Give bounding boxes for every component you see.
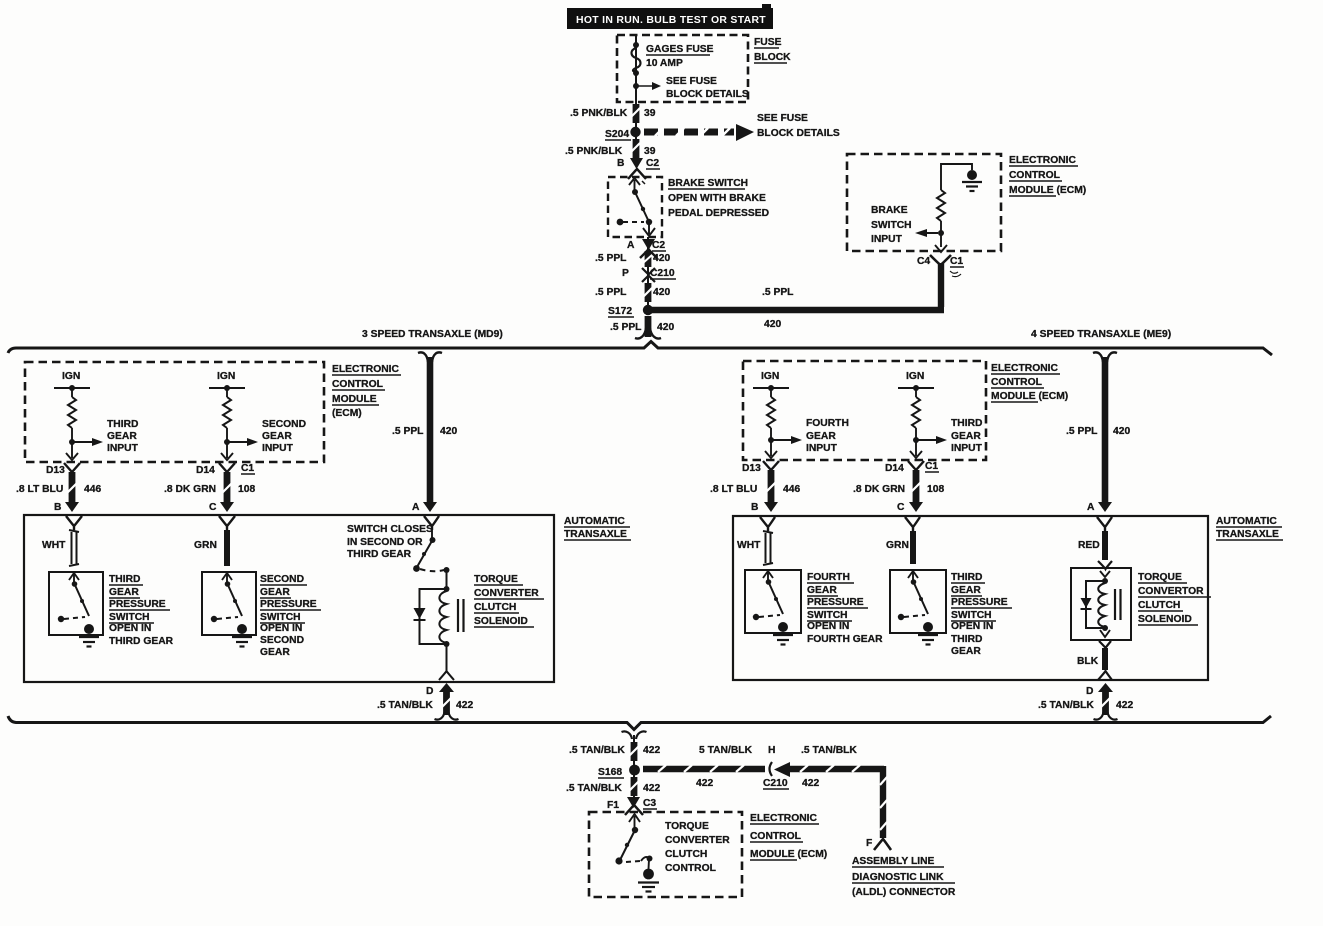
svg-text:420: 420 (653, 253, 670, 264)
svg-text:GEAR: GEAR (806, 431, 836, 442)
svg-text:.5 PPL: .5 PPL (1066, 426, 1097, 437)
svg-text:108: 108 (927, 484, 944, 495)
svg-text:C1: C1 (241, 463, 254, 474)
svg-text:GRN: GRN (886, 540, 909, 551)
svg-text:D13: D13 (742, 463, 761, 474)
third gear pressure switch (3spd) (49, 572, 174, 647)
svg-text:FOURTH: FOURTH (806, 418, 849, 429)
svg-text:CONTROL: CONTROL (1009, 170, 1060, 181)
svg-text:SEE FUSE: SEE FUSE (757, 113, 808, 124)
svg-text:C1: C1 (925, 461, 938, 472)
svg-text:420: 420 (764, 319, 781, 330)
svg-text:F1: F1 (607, 800, 619, 811)
svg-text:420: 420 (440, 426, 457, 437)
svg-text:THIRD: THIRD (107, 419, 138, 430)
svg-text:DIAGNOSTIC LINK: DIAGNOSTIC LINK (852, 872, 944, 883)
power banner HOT IN RUN (567, 4, 773, 29)
svg-text:FOURTH: FOURTH (807, 572, 850, 583)
svg-text:IGN: IGN (761, 371, 779, 382)
svg-text:446: 446 (84, 484, 101, 495)
wire GRN (4spd) (886, 531, 913, 564)
svg-text:PRESSURE: PRESSURE (951, 597, 1008, 608)
svg-text:CONTROL: CONTROL (750, 831, 801, 842)
pin A connector (4spd box) (1097, 517, 1112, 531)
svg-text:TORQUE: TORQUE (1138, 572, 1182, 583)
svg-text:IGN: IGN (906, 371, 924, 382)
svg-text:THIRD: THIRD (951, 418, 982, 429)
svg-text:C3: C3 (643, 798, 656, 809)
svg-text:B: B (617, 158, 624, 169)
automatic transaxle box (3spd) (24, 515, 631, 682)
svg-text:.5 PNK/BLK: .5 PNK/BLK (565, 146, 623, 157)
svg-text:.5 TAN/BLK: .5 TAN/BLK (569, 745, 625, 756)
splice S172 (608, 305, 653, 317)
svg-text:PRESSURE: PRESSURE (109, 599, 166, 610)
splice S204 (605, 127, 641, 140)
fuse GAGES FUSE 10A (632, 36, 749, 102)
svg-text:PRESSURE: PRESSURE (807, 597, 864, 608)
wire GRN (3spd) (194, 530, 227, 566)
connector D13 wire 446 LT BLU (3spd) (16, 463, 101, 513)
svg-text:.5 PPL: .5 PPL (595, 287, 626, 298)
svg-text:TRANSAXLE: TRANSAXLE (1216, 529, 1279, 540)
svg-text:GEAR: GEAR (260, 587, 290, 598)
svg-text:GEAR: GEAR (260, 647, 290, 658)
svg-text:3 SPEED TRANSAXLE (MD9): 3 SPEED TRANSAXLE (MD9) (362, 329, 503, 340)
svg-text:CONVERTOR: CONVERTOR (1138, 586, 1204, 597)
wire 39 PNK/BLK lower (565, 134, 656, 160)
wire 422 TAN/BLK below brace (569, 731, 660, 765)
svg-text:420: 420 (1113, 426, 1130, 437)
svg-text:GAGES FUSE: GAGES FUSE (646, 44, 714, 55)
splice S168 (598, 765, 640, 778)
pin D wire 422 (3spd) (377, 683, 473, 720)
connector C2 pin A (627, 239, 666, 258)
IGN driver second gear (3spd) (209, 371, 306, 460)
brake switch contacts (617, 178, 655, 236)
svg-text:FUSE: FUSE (754, 37, 782, 48)
connector D13 wire 446 LT BLU (4spd) (710, 461, 800, 513)
svg-text:IN SECOND OR: IN SECOND OR (347, 537, 423, 548)
connector C4 / C1 (917, 255, 964, 277)
svg-text:SECOND: SECOND (260, 635, 304, 646)
wire 420 PPL seg1 (595, 237, 670, 310)
svg-text:BRAKE: BRAKE (871, 205, 908, 216)
brake switch input arrow (871, 205, 947, 252)
svg-text:BLK: BLK (1077, 656, 1099, 667)
svg-text:.5 PPL: .5 PPL (610, 322, 641, 333)
svg-text:.5 TAN/BLK: .5 TAN/BLK (801, 745, 857, 756)
svg-text:MODULE (ECM): MODULE (ECM) (991, 391, 1068, 402)
svg-text:.5 PPL: .5 PPL (392, 426, 423, 437)
svg-text:.5 TAN/BLK: .5 TAN/BLK (377, 700, 433, 711)
svg-text:GEAR: GEAR (109, 587, 139, 598)
brake switch box (608, 177, 769, 237)
svg-text:422: 422 (643, 745, 660, 756)
svg-text:5 TAN/BLK: 5 TAN/BLK (699, 745, 753, 756)
svg-text:(ECM): (ECM) (332, 408, 362, 419)
svg-text:.8 DK GRN: .8 DK GRN (164, 484, 216, 495)
wire 420 PPL ECM drop (938, 263, 944, 307)
svg-text:.5 TAN/BLK: .5 TAN/BLK (566, 783, 622, 794)
svg-text:THIRD: THIRD (109, 574, 140, 585)
svg-text:SWITCH: SWITCH (951, 610, 992, 621)
TCC switch (3spd) (347, 524, 450, 573)
svg-text:C210: C210 (763, 778, 788, 789)
brace separator bottom (8, 716, 1271, 730)
svg-text:.5 PPL: .5 PPL (762, 287, 793, 298)
svg-text:HOT IN RUN. BULB TEST OR START: HOT IN RUN. BULB TEST OR START (576, 15, 766, 26)
connector D14 C1 wire 108 DK GRN (3spd) (164, 463, 255, 513)
wire 420 PPL trunk (3spd) (392, 352, 457, 513)
svg-text:D: D (426, 686, 433, 697)
fuse block box (617, 35, 791, 102)
svg-text:THIRD GEAR: THIRD GEAR (347, 549, 412, 560)
svg-text:CLUTCH: CLUTCH (665, 849, 707, 860)
svg-text:C1: C1 (950, 256, 963, 267)
pin C connector (4spd box) (905, 517, 920, 531)
svg-text:WHT: WHT (737, 540, 761, 551)
wire 420 PPL trunk (4spd) (1066, 352, 1130, 513)
svg-text:.5 PNK/BLK: .5 PNK/BLK (570, 108, 628, 119)
svg-text:INPUT: INPUT (871, 234, 903, 245)
svg-text:CONTROL: CONTROL (332, 379, 383, 390)
svg-text:SECOND: SECOND (260, 574, 304, 585)
svg-text:.5 PPL: .5 PPL (595, 253, 626, 264)
svg-text:D14: D14 (196, 465, 215, 476)
pin B connector (3spd box) (66, 516, 82, 530)
svg-text:ELECTRONIC: ELECTRONIC (750, 813, 817, 824)
automatic transaxle box (4spd) (733, 516, 1283, 680)
svg-text:WHT: WHT (42, 540, 66, 551)
svg-text:INPUT: INPUT (262, 443, 294, 454)
svg-text:S168: S168 (598, 767, 622, 778)
svg-text:THIRD GEAR: THIRD GEAR (109, 636, 174, 647)
wire BLK (4spd) (1077, 641, 1112, 680)
svg-text:D: D (1086, 686, 1093, 697)
svg-text:SECOND: SECOND (262, 419, 306, 430)
svg-text:FOURTH GEAR: FOURTH GEAR (807, 634, 883, 645)
svg-text:422: 422 (802, 778, 819, 789)
ECM box (brake switch input) (847, 154, 1086, 251)
svg-text:CONTROL: CONTROL (991, 377, 1042, 388)
svg-text:GEAR: GEAR (807, 585, 837, 596)
svg-text:SWITCH CLOSES: SWITCH CLOSES (347, 524, 433, 535)
svg-text:GEAR: GEAR (951, 431, 981, 442)
svg-text:CONVERTER: CONVERTER (474, 588, 539, 599)
svg-text:TORQUE: TORQUE (665, 821, 709, 832)
svg-text:ELECTRONIC: ELECTRONIC (332, 364, 399, 375)
third gear pressure switch (4spd) (890, 570, 1012, 657)
svg-text:SOLENOID: SOLENOID (1138, 614, 1192, 625)
svg-text:39: 39 (644, 108, 656, 119)
svg-text:422: 422 (456, 700, 473, 711)
svg-text:PRESSURE: PRESSURE (260, 599, 317, 610)
svg-text:.8 LT BLU: .8 LT BLU (16, 484, 63, 495)
connector C210 pin P (622, 268, 676, 282)
ECM pull-up resistor (937, 190, 945, 247)
svg-text:TRANSAXLE: TRANSAXLE (564, 529, 627, 540)
TCC control contacts (615, 814, 659, 892)
svg-text:OPEN IN: OPEN IN (807, 621, 849, 632)
wire 422 TAN/BLK to TCC control (566, 775, 660, 797)
svg-text:INPUT: INPUT (107, 443, 139, 454)
brace separator top (8, 329, 1272, 355)
IGN driver fourth gear (4spd) (753, 371, 849, 458)
svg-text:420: 420 (657, 322, 674, 333)
svg-text:H: H (768, 745, 775, 756)
wire WHT (4spd) (737, 531, 773, 565)
svg-text:108: 108 (238, 484, 255, 495)
TCC control box (589, 812, 742, 897)
wire RED (4spd) (1078, 531, 1112, 569)
TCC solenoid (3spd) (414, 570, 545, 680)
svg-text:C4: C4 (917, 256, 930, 267)
wire 420 PPL seg2 (595, 283, 670, 302)
svg-text:ELECTRONIC: ELECTRONIC (1009, 155, 1076, 166)
svg-text:INPUT: INPUT (806, 443, 838, 454)
svg-text:420: 420 (653, 287, 670, 298)
svg-text:OPEN IN: OPEN IN (951, 621, 993, 632)
svg-text:A: A (1087, 502, 1095, 513)
svg-text:.5 TAN/BLK: .5 TAN/BLK (1038, 700, 1094, 711)
ECM label (TCC control) (750, 813, 827, 860)
wire 39 PNK/BLK upper (570, 100, 656, 130)
svg-text:INPUT: INPUT (951, 443, 983, 454)
svg-text:SEE FUSE: SEE FUSE (666, 76, 717, 87)
svg-text:OPEN IN: OPEN IN (260, 623, 302, 634)
svg-text:ELECTRONIC: ELECTRONIC (991, 363, 1058, 374)
svg-text:S172: S172 (608, 306, 632, 317)
svg-text:MODULE: MODULE (332, 394, 377, 405)
pin D wire 422 (4spd) (1038, 683, 1133, 720)
svg-text:SWITCH: SWITCH (109, 612, 150, 623)
wire 422 TAN/BLK to ALDL (643, 745, 884, 789)
ECM internal ground (941, 164, 982, 191)
svg-text:SOLENOID: SOLENOID (474, 616, 528, 627)
second gear pressure switch (3spd) (202, 572, 321, 658)
wire 420 PPL down to brace (610, 316, 674, 339)
wire 420 PPL horizontal to ECM (652, 287, 944, 330)
svg-text:A: A (412, 502, 420, 513)
connector C3 pin F1 (607, 797, 657, 815)
svg-text:P: P (622, 268, 629, 279)
svg-text:A: A (627, 240, 635, 251)
svg-text:SWITCH: SWITCH (807, 610, 848, 621)
pin B connector (4spd box) (760, 517, 775, 531)
wire WHT (3spd) (42, 530, 79, 566)
svg-text:RED: RED (1078, 540, 1100, 551)
svg-text:ASSEMBLY LINE: ASSEMBLY LINE (852, 856, 935, 867)
svg-text:PEDAL DEPRESSED: PEDAL DEPRESSED (668, 208, 769, 219)
IGN driver third gear (4spd) (898, 371, 983, 458)
svg-text:F: F (866, 838, 872, 849)
svg-text:GEAR: GEAR (951, 585, 981, 596)
svg-text:446: 446 (783, 484, 800, 495)
svg-text:.8 LT BLU: .8 LT BLU (710, 484, 757, 495)
IGN driver third gear (3spd) (54, 371, 139, 460)
svg-text:IGN: IGN (62, 371, 80, 382)
fourth gear pressure switch (4spd) (745, 570, 883, 645)
svg-text:THIRD: THIRD (951, 572, 982, 583)
svg-text:MODULE (ECM): MODULE (ECM) (1009, 185, 1086, 196)
svg-text:4 SPEED TRANSAXLE (ME9): 4 SPEED TRANSAXLE (ME9) (1031, 329, 1171, 340)
svg-text:BLOCK: BLOCK (754, 52, 791, 63)
ECM box 4-speed (743, 361, 1068, 460)
dashed arrow SEE FUSE BLOCK DETAILS (644, 113, 840, 141)
svg-text:TORQUE: TORQUE (474, 574, 518, 585)
svg-text:S204: S204 (605, 129, 629, 140)
svg-text:SWITCH: SWITCH (871, 220, 912, 231)
svg-text:BLOCK DETAILS: BLOCK DETAILS (666, 89, 749, 100)
connector C2 pin B (617, 158, 660, 179)
pin C connector (3spd box) (219, 516, 235, 530)
svg-text:39: 39 (644, 146, 656, 157)
svg-text:C: C (209, 502, 217, 513)
svg-text:CONTROL: CONTROL (665, 863, 716, 874)
svg-text:C2: C2 (646, 158, 659, 169)
pin A connector (3spd box) (424, 516, 439, 530)
svg-text:CLUTCH: CLUTCH (1138, 600, 1180, 611)
svg-text:AUTOMATIC: AUTOMATIC (564, 516, 625, 527)
svg-text:422: 422 (643, 783, 660, 794)
svg-text:MODULE (ECM): MODULE (ECM) (750, 849, 827, 860)
svg-text:GRN: GRN (194, 540, 217, 551)
svg-text:10 AMP: 10 AMP (646, 58, 683, 69)
svg-text:(ALDL) CONNECTOR: (ALDL) CONNECTOR (852, 887, 956, 898)
svg-text:CONVERTER: CONVERTER (665, 835, 730, 846)
svg-text:CLUTCH: CLUTCH (474, 602, 516, 613)
connector D14 C1 wire 108 DK GRN (4spd) (853, 461, 944, 513)
svg-text:D14: D14 (885, 463, 904, 474)
wire to ALDL connector F (866, 766, 891, 850)
svg-text:GEAR: GEAR (107, 431, 137, 442)
svg-text:C: C (897, 502, 905, 513)
svg-text:IGN: IGN (217, 371, 235, 382)
svg-text:422: 422 (1116, 700, 1133, 711)
svg-text:BRAKE SWITCH: BRAKE SWITCH (668, 178, 748, 189)
svg-text:GEAR: GEAR (262, 431, 292, 442)
svg-text:422: 422 (696, 778, 713, 789)
ECM box 3-speed (25, 362, 401, 462)
TCC solenoid box (4spd) (1071, 568, 1211, 640)
svg-text:OPEN IN: OPEN IN (109, 623, 151, 634)
svg-text:OPEN WITH BRAKE: OPEN WITH BRAKE (668, 193, 766, 204)
svg-text:B: B (751, 502, 758, 513)
svg-text:GEAR: GEAR (951, 646, 981, 657)
svg-text:THIRD: THIRD (951, 634, 982, 645)
ALDL label (852, 856, 956, 898)
svg-text:SWITCH: SWITCH (260, 612, 301, 623)
svg-text:AUTOMATIC: AUTOMATIC (1216, 516, 1277, 527)
svg-text:.8 DK GRN: .8 DK GRN (853, 484, 905, 495)
svg-text:B: B (54, 502, 61, 513)
svg-text:BLOCK DETAILS: BLOCK DETAILS (757, 128, 840, 139)
svg-text:D13: D13 (46, 465, 65, 476)
svg-text:C2: C2 (652, 240, 665, 251)
